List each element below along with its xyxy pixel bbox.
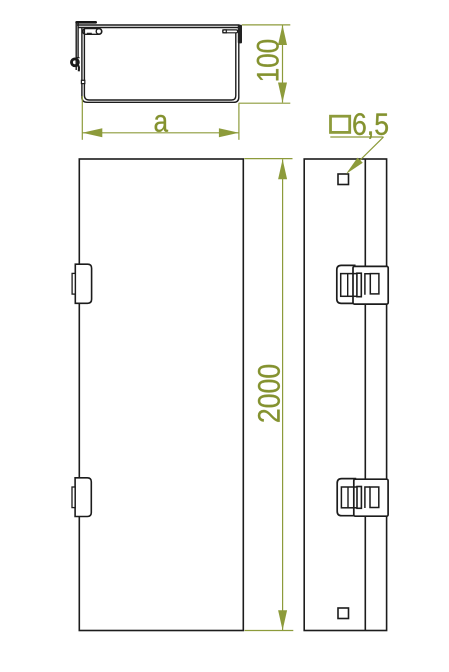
- a ext line right: [238, 103, 240, 140]
- 2000 arrow bottom: [278, 610, 287, 630]
- clip K2 frame right: [354, 479, 388, 516]
- latch L1 body: [75, 264, 91, 303]
- clip K1 slot left: [341, 274, 361, 297]
- 100 ext line bottom: [239, 102, 291, 104]
- a arrow right: [219, 128, 239, 137]
- 2000 arrow top: [278, 159, 287, 179]
- clip K2 bar: [357, 487, 361, 509]
- front view outline: [79, 159, 243, 631]
- a dim line: [82, 132, 239, 134]
- label leader underline: [330, 136, 383, 138]
- 2000 ext line top: [244, 158, 292, 160]
- 100 arrow bottom: [278, 83, 287, 103]
- label square symbol: [331, 116, 350, 132]
- 2000 ext line bottom: [245, 630, 294, 632]
- 2000 dim line: [282, 159, 284, 630]
- clip K1 body left: [337, 265, 355, 303]
- rolled hem top-right: [223, 30, 238, 33]
- label leader arrow: [346, 158, 363, 174]
- left wall notch: [81, 80, 84, 83]
- rolled hem top-left: [83, 29, 102, 35]
- clip K2 bracket: [365, 487, 370, 508]
- latch L2 tab: [72, 487, 75, 508]
- clip K1 bracket: [365, 274, 370, 295]
- a ext line left: [81, 96, 83, 140]
- lid left thick edge: [75, 21, 97, 24]
- clip K2 body left: [337, 479, 355, 516]
- 2000 label: [258, 365, 280, 422]
- clip K1 bar: [357, 273, 361, 297]
- a label: [155, 115, 168, 132]
- latch L1 tab: [72, 273, 75, 294]
- a arrow left: [82, 128, 102, 137]
- inner body wall line: [84, 28, 235, 101]
- lid left hook: [72, 59, 79, 66]
- 100 arrow top: [278, 25, 287, 45]
- lid bottom line: [78, 27, 240, 29]
- clip K1 slot divider: [347, 274, 349, 297]
- square hole bottom: [338, 608, 349, 619]
- 100 dim line: [282, 25, 284, 103]
- label leader line: [348, 137, 384, 172]
- outer body silhouette: [82, 28, 239, 103]
- clip K2 slot left: [341, 487, 361, 508]
- label text 6,5: [353, 113, 388, 139]
- lid top line: [77, 24, 240, 26]
- 100 ext line top: [242, 24, 290, 26]
- clip K2 slot right: [370, 487, 379, 508]
- side view inner edge line: [364, 159, 366, 631]
- lid left flap: [75, 23, 77, 70]
- latch L2 body: [75, 478, 91, 517]
- clip K1 frame right: [353, 266, 388, 304]
- clip K1 slot right: [370, 274, 379, 294]
- 100 label: [257, 40, 279, 80]
- clip K2 slot divider: [347, 487, 349, 508]
- square hole top: [338, 174, 349, 185]
- lid right dark cap: [238, 25, 242, 44]
- side view outline: [304, 159, 386, 631]
